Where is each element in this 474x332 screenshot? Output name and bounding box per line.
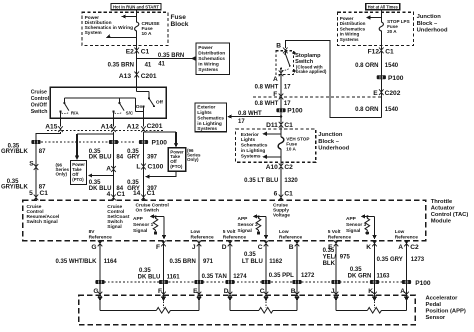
note Low Reference (B) bbox=[279, 229, 303, 240]
pin C C2 top bbox=[258, 241, 269, 296]
svg-text:R/A: R/A bbox=[71, 110, 80, 115]
pin K APP bbox=[368, 288, 377, 298]
pin F C2 top bbox=[156, 241, 166, 296]
svg-text:L: L bbox=[136, 163, 140, 170]
wire 0.8 WHT 17 bbox=[255, 75, 292, 130]
svg-text:A15: A15 bbox=[45, 123, 57, 130]
svg-text:(PTO): (PTO) bbox=[72, 177, 84, 182]
svg-text:14: 14 bbox=[133, 190, 141, 197]
svg-text:Signal: Signal bbox=[238, 228, 252, 234]
svg-text:B: B bbox=[276, 43, 281, 50]
svg-text:S: S bbox=[29, 161, 34, 168]
branch to PTO left bbox=[75, 134, 114, 160]
svg-text:F: F bbox=[158, 288, 162, 295]
resistor APP sensor 2 internal bbox=[238, 214, 269, 239]
svg-text:Control (TAC): Control (TAC) bbox=[431, 212, 469, 218]
switch contact S/C bbox=[112, 98, 133, 118]
svg-text:Position (APP): Position (APP) bbox=[426, 309, 466, 315]
connector C201 dashed line bbox=[47, 130, 163, 132]
pin A13 C201 bbox=[119, 72, 157, 80]
pin F APP bbox=[158, 288, 166, 298]
svg-text:C2: C2 bbox=[410, 244, 419, 251]
wire into switch bbox=[136, 75, 138, 88]
svg-text:1273: 1273 bbox=[411, 257, 425, 263]
svg-text:Stoplamp: Stoplamp bbox=[295, 53, 321, 59]
switch contact R/A bbox=[59, 98, 79, 118]
pin 4 C1 bbox=[107, 191, 126, 201]
svg-text:F: F bbox=[273, 91, 277, 98]
wire 0.8 ORN 1540 bbox=[355, 50, 404, 117]
svg-text:10 A: 10 A bbox=[142, 31, 152, 37]
svg-text:in Wiring: in Wiring bbox=[198, 61, 219, 67]
svg-text:DK GRN: DK GRN bbox=[348, 273, 372, 279]
svg-text:LT BLU: LT BLU bbox=[242, 259, 263, 265]
switch S2 stoplamp dashed box bbox=[276, 51, 294, 75]
note 8V Reference bbox=[89, 229, 113, 240]
svg-text:C1: C1 bbox=[385, 48, 394, 55]
connector C202 dashed line bbox=[253, 96, 381, 98]
label Cruise Control On/Off Switch bbox=[31, 90, 50, 116]
pin J APP bbox=[331, 288, 338, 298]
svg-text:Reference: Reference bbox=[279, 234, 303, 240]
svg-text:Block –: Block – bbox=[318, 139, 339, 145]
svg-text:K: K bbox=[366, 244, 371, 251]
svg-text:1540: 1540 bbox=[385, 63, 399, 69]
pin E C2 top bbox=[328, 241, 338, 296]
svg-text:1540: 1540 bbox=[385, 107, 399, 113]
pin F12 C1 bbox=[368, 48, 394, 56]
svg-text:4: 4 bbox=[107, 191, 111, 198]
svg-text:brake applied): brake applied) bbox=[296, 69, 327, 74]
svg-text:Reference: Reference bbox=[191, 234, 215, 240]
svg-text:41: 41 bbox=[158, 62, 165, 68]
arrow JB bottom bbox=[262, 155, 281, 159]
svg-text:Systems: Systems bbox=[340, 37, 359, 42]
note Low Reference (J) bbox=[191, 229, 215, 240]
wire switch feed internal bbox=[137, 87, 149, 98]
label Fuse Block bbox=[171, 14, 189, 28]
svg-text:397: 397 bbox=[147, 155, 158, 161]
svg-text:J: J bbox=[331, 288, 335, 295]
label 0.35 GRY 397 (2) bbox=[127, 180, 158, 192]
pin G C2 top bbox=[91, 241, 102, 296]
svg-text:0.35 LT BLU: 0.35 LT BLU bbox=[244, 178, 278, 184]
resistor APP sensor 3 (potentiometer) bbox=[334, 295, 409, 313]
svg-text:8V: 8V bbox=[89, 229, 96, 235]
svg-text:0.35: 0.35 bbox=[323, 248, 335, 254]
svg-text:GRY/BLK: GRY/BLK bbox=[1, 149, 28, 155]
resistor APP sensor 1 (potentiometer) bbox=[98, 295, 201, 313]
connector P100 on WHT bbox=[276, 108, 303, 115]
note Power Distribution Schematics in Wiring Systems (right) bbox=[340, 16, 366, 42]
svg-text:0.35: 0.35 bbox=[350, 267, 362, 273]
svg-text:Off: Off bbox=[156, 100, 163, 106]
pin A15 C201 bbox=[45, 118, 63, 132]
pin D C2 top bbox=[222, 241, 233, 296]
connector P100 dashed line (upper left) bbox=[41, 139, 167, 146]
svg-text:A13: A13 bbox=[119, 73, 131, 80]
svg-text:84: 84 bbox=[116, 155, 123, 161]
svg-text:Pedal: Pedal bbox=[426, 302, 442, 308]
svg-text:Junction: Junction bbox=[417, 14, 442, 20]
svg-text:10 A: 10 A bbox=[286, 146, 296, 151]
svg-text:Sensor 3: Sensor 3 bbox=[346, 222, 367, 228]
svg-text:A12: A12 bbox=[127, 123, 139, 130]
svg-text:Switch: Switch bbox=[31, 109, 48, 115]
svg-text:17: 17 bbox=[284, 85, 291, 91]
label Junction Block Underhood (middle) bbox=[318, 132, 349, 151]
resistor APP sensor 2 (potentiometer) bbox=[228, 295, 299, 313]
fuse STOP LPS 20 A bbox=[379, 19, 409, 34]
pin B APP bbox=[291, 288, 300, 298]
svg-text:F12: F12 bbox=[368, 48, 380, 55]
pin B bbox=[276, 43, 287, 54]
pin K C2 top bbox=[366, 241, 377, 296]
svg-text:Exterior: Exterior bbox=[241, 132, 259, 138]
svg-text:Hot in RUN and START: Hot in RUN and START bbox=[113, 5, 159, 10]
svg-text:87: 87 bbox=[39, 149, 46, 155]
svg-text:C2: C2 bbox=[284, 164, 293, 171]
svg-text:Block: Block bbox=[171, 21, 189, 28]
label 0.35 DK BLU 84 bbox=[89, 149, 124, 161]
svg-text:6: 6 bbox=[274, 191, 278, 198]
pin 14 C1 bbox=[133, 190, 155, 200]
svg-text:D: D bbox=[222, 244, 227, 251]
svg-text:5 Volt: 5 Volt bbox=[223, 229, 236, 235]
svg-text:BLK: BLK bbox=[323, 261, 336, 267]
svg-text:Schematics: Schematics bbox=[197, 115, 224, 121]
wire GRY/BLK jog bbox=[31, 132, 60, 200]
pin F C202 bbox=[273, 91, 283, 99]
pin D11 C1 bbox=[266, 122, 293, 129]
svg-text:1163: 1163 bbox=[377, 273, 391, 279]
svg-text:in Lighting: in Lighting bbox=[241, 148, 266, 154]
wire DK BLU down bbox=[109, 132, 118, 200]
note 5 Volt Reference (E) bbox=[328, 229, 352, 240]
svg-text:B: B bbox=[291, 288, 296, 295]
box PTO right (96 Series Only) bbox=[168, 148, 201, 171]
svg-text:17: 17 bbox=[238, 119, 245, 125]
svg-text:1162: 1162 bbox=[269, 259, 283, 265]
svg-text:Sensor 1: Sensor 1 bbox=[133, 222, 154, 228]
svg-text:Power: Power bbox=[198, 45, 213, 51]
arrow to system note bbox=[105, 34, 136, 40]
svg-text:Hot at All Times: Hot at All Times bbox=[368, 5, 399, 10]
svg-text:971: 971 bbox=[203, 259, 214, 265]
label 0.35 DK BLU 1161 bbox=[138, 268, 181, 280]
arrow wire A to PTO left bbox=[88, 173, 114, 177]
note Exterior Lights Schematics in Lighting Systems (inside JB) bbox=[241, 132, 268, 160]
box Power Distribution Schematics in Wiring Systems bbox=[196, 43, 230, 75]
svg-text:Systems: Systems bbox=[198, 67, 218, 73]
svg-text:0.35 BRN: 0.35 BRN bbox=[158, 53, 184, 59]
pin A14 C201 bbox=[101, 118, 116, 132]
svg-text:Underhood: Underhood bbox=[417, 27, 448, 33]
svg-text:Signal: Signal bbox=[346, 228, 360, 234]
pin 6 C1 bbox=[274, 191, 294, 201]
pin E2 C1 bbox=[126, 48, 150, 56]
svg-text:P100: P100 bbox=[152, 139, 168, 146]
svg-text:DK BLU: DK BLU bbox=[138, 275, 161, 281]
label 0.35 DK GRN 1163 bbox=[348, 267, 391, 279]
svg-text:On: On bbox=[136, 104, 143, 110]
svg-text:0.35 BRN: 0.35 BRN bbox=[108, 63, 134, 69]
branch to PTO right bbox=[144, 132, 179, 147]
svg-text:E2: E2 bbox=[126, 49, 134, 56]
svg-text:A: A bbox=[400, 288, 405, 295]
svg-text:F: F bbox=[156, 244, 160, 251]
box Exterior Lights Schematics in Lighting Systems bbox=[195, 103, 227, 132]
svg-text:(PTO): (PTO) bbox=[170, 164, 183, 169]
svg-text:A: A bbox=[273, 76, 278, 83]
label 0.35 TAN 1274 bbox=[202, 274, 248, 280]
arrow JB top bbox=[262, 132, 281, 136]
pin C APP bbox=[260, 288, 269, 298]
wire stop fuse feed bbox=[380, 10, 382, 50]
svg-text:1320: 1320 bbox=[284, 178, 298, 184]
svg-text:17: 17 bbox=[284, 101, 291, 107]
note Low Reference (A) bbox=[395, 229, 419, 240]
svg-text:Throttle: Throttle bbox=[431, 199, 453, 205]
pin A C2 top bbox=[398, 241, 419, 296]
svg-text:GRY/BLK: GRY/BLK bbox=[1, 185, 28, 191]
svg-text:0.35 WHT/BLK: 0.35 WHT/BLK bbox=[55, 259, 97, 265]
svg-text:1272: 1272 bbox=[301, 273, 315, 279]
svg-text:Only): Only) bbox=[56, 172, 68, 177]
pin 5 C1 bbox=[29, 190, 48, 201]
svg-text:Schematics: Schematics bbox=[241, 143, 268, 149]
node junction WHT branch bbox=[280, 115, 283, 118]
svg-text:C1: C1 bbox=[141, 49, 150, 56]
label 0.8 WHT 17 (2) bbox=[255, 101, 292, 107]
svg-text:1164: 1164 bbox=[104, 259, 118, 265]
svg-text:975: 975 bbox=[340, 255, 351, 261]
svg-text:Low: Low bbox=[279, 229, 289, 235]
label 0.35 LT BLU 1162 bbox=[242, 252, 283, 265]
svg-text:APP: APP bbox=[133, 216, 144, 222]
svg-text:0.35 PPL: 0.35 PPL bbox=[269, 273, 294, 279]
svg-text:Exterior: Exterior bbox=[197, 105, 215, 111]
svg-text:On Switch: On Switch bbox=[136, 208, 160, 214]
svg-text:A: A bbox=[106, 166, 111, 173]
note Cruise Control Set/Coast Switch Signal bbox=[107, 204, 130, 230]
pin G APP bbox=[93, 288, 102, 298]
svg-text:S/C: S/C bbox=[126, 110, 134, 115]
svg-text:C100: C100 bbox=[148, 164, 164, 171]
svg-text:Systems: Systems bbox=[241, 153, 261, 159]
svg-text:Systems: Systems bbox=[197, 126, 217, 132]
svg-text:C201: C201 bbox=[141, 73, 157, 80]
svg-text:C1: C1 bbox=[284, 191, 293, 198]
label 0.35 GRY 1273 bbox=[377, 257, 425, 263]
svg-text:Reference: Reference bbox=[223, 234, 247, 240]
fuse VEH STOP 10 A bbox=[278, 129, 309, 166]
svg-text:5: 5 bbox=[29, 190, 33, 197]
svg-text:0.35: 0.35 bbox=[244, 252, 256, 258]
svg-text:Block –: Block – bbox=[417, 21, 438, 27]
svg-text:0.8 ORN: 0.8 ORN bbox=[355, 63, 378, 69]
svg-text:Switch Signal: Switch Signal bbox=[27, 219, 58, 225]
svg-text:Sensor 2: Sensor 2 bbox=[238, 222, 259, 228]
svg-text:C1: C1 bbox=[117, 191, 126, 198]
pin A stoplamp bbox=[273, 70, 283, 83]
pin D APP bbox=[224, 288, 233, 298]
pin E C202 bbox=[373, 89, 400, 97]
label Accelerator Pedal Position (APP) Sensor bbox=[426, 296, 466, 322]
pin A APP bbox=[400, 288, 409, 298]
svg-text:Underhood: Underhood bbox=[318, 145, 349, 151]
box PTO left (96 Series Only) bbox=[56, 161, 87, 185]
svg-text:GRY: GRY bbox=[127, 155, 140, 161]
wire 0.35 BRN 41 branch to schematics bbox=[137, 53, 196, 68]
svg-text:APP: APP bbox=[346, 216, 357, 222]
svg-text:Schematics: Schematics bbox=[198, 56, 225, 62]
switch stoplamp contacts bbox=[280, 51, 291, 72]
switch S1 Cruise Control On/Off Switch box bbox=[50, 87, 166, 118]
svg-text:0.8 ORN: 0.8 ORN bbox=[355, 107, 378, 113]
label 0.35 BRN 971 bbox=[169, 259, 213, 265]
resistor APP sensor 1 internal bbox=[133, 214, 166, 239]
svg-text:J: J bbox=[192, 244, 196, 251]
svg-text:0.8 WHT: 0.8 WHT bbox=[255, 85, 279, 91]
pin J C2 top bbox=[192, 241, 201, 296]
svg-text:K: K bbox=[368, 288, 373, 295]
svg-text:Voltage: Voltage bbox=[273, 213, 290, 219]
pin E APP bbox=[193, 288, 201, 298]
svg-text:Reference: Reference bbox=[328, 234, 352, 240]
switch contact On/Off bbox=[136, 97, 163, 118]
svg-text:in Lighting: in Lighting bbox=[197, 121, 222, 127]
svg-text:Lights: Lights bbox=[197, 110, 212, 116]
junction block underhood dashed box (VEH STOP) bbox=[236, 129, 316, 162]
svg-text:A10: A10 bbox=[266, 164, 278, 171]
svg-text:YEL/: YEL/ bbox=[323, 255, 337, 261]
svg-text:C: C bbox=[260, 288, 265, 295]
arrow to note bbox=[366, 15, 381, 19]
svg-text:Sensor: Sensor bbox=[426, 315, 446, 321]
svg-text:D: D bbox=[224, 288, 229, 295]
svg-text:Signal: Signal bbox=[133, 228, 147, 234]
svg-text:Low: Low bbox=[395, 229, 405, 235]
svg-text:Only): Only) bbox=[187, 157, 199, 162]
svg-text:5 Volt: 5 Volt bbox=[328, 229, 341, 235]
svg-text:0.35 GRY: 0.35 GRY bbox=[377, 257, 403, 263]
pin A12 C201 bbox=[127, 118, 163, 132]
label 0.35 YEL/BLK 975 bbox=[323, 248, 351, 267]
wire 0.8 WHT 17 branch to exterior lights bbox=[227, 111, 281, 125]
svg-text:20 A: 20 A bbox=[387, 29, 397, 34]
svg-text:41: 41 bbox=[145, 63, 152, 69]
svg-text:Low: Low bbox=[191, 229, 201, 235]
svg-text:Reference: Reference bbox=[395, 234, 419, 240]
svg-text:On/Off: On/Off bbox=[31, 103, 47, 109]
label 0.35 GRY/BLK 87 bbox=[1, 143, 46, 155]
label Hot at All Times bbox=[366, 4, 400, 10]
connector C100 pins S A L bbox=[29, 161, 163, 173]
module U2 Accelerator Pedal Position sensor dashed box bbox=[79, 295, 416, 324]
wire PTO right return arrow bbox=[145, 171, 176, 179]
svg-text:G: G bbox=[91, 244, 96, 251]
svg-text:Lights: Lights bbox=[241, 137, 256, 143]
label 0.8 ORN 1540 (2) bbox=[355, 107, 399, 113]
svg-text:Signal: Signal bbox=[107, 224, 121, 230]
label 0.35 DK BLU 84 (2) bbox=[89, 180, 124, 192]
note Cruise Control On Switch bbox=[136, 203, 169, 214]
note 5 Volt Reference (D) bbox=[223, 229, 247, 240]
svg-text:P100: P100 bbox=[287, 108, 303, 115]
wire 0.35 LT BLU 1320 bbox=[244, 166, 298, 200]
fuse block (left) dashed box bbox=[82, 12, 168, 45]
resistor APP sensor 3 internal bbox=[346, 214, 377, 239]
label 0.35 WHT/BLK 1164 bbox=[55, 259, 117, 265]
svg-text:DK BLU: DK BLU bbox=[89, 155, 112, 161]
svg-text:D11: D11 bbox=[266, 122, 278, 129]
label Junction Block Underhood (top right) bbox=[417, 14, 448, 33]
svg-text:0.8 WHT: 0.8 WHT bbox=[238, 111, 262, 117]
svg-text:Accelerator: Accelerator bbox=[426, 296, 459, 302]
svg-text:Module: Module bbox=[431, 219, 452, 225]
svg-text:E: E bbox=[373, 90, 378, 97]
label Stoplamp Switch bbox=[292, 51, 327, 74]
note Cruise Supply Voltage bbox=[273, 203, 290, 219]
svg-text:Distribution: Distribution bbox=[198, 50, 225, 56]
svg-text:Fuse: Fuse bbox=[171, 14, 187, 21]
svg-text:A: A bbox=[398, 244, 403, 251]
svg-text:Reference: Reference bbox=[89, 234, 113, 240]
label 0.35 GRY 397 bbox=[127, 149, 158, 161]
svg-text:C1: C1 bbox=[284, 122, 293, 129]
svg-text:APP: APP bbox=[238, 216, 249, 222]
fuse CRUISE 10 A bbox=[135, 21, 161, 37]
svg-text:C202: C202 bbox=[385, 90, 401, 97]
svg-text:P100: P100 bbox=[388, 75, 404, 82]
arrow to power distribution note bbox=[121, 14, 137, 18]
svg-text:C: C bbox=[258, 244, 263, 251]
svg-text:C1: C1 bbox=[40, 190, 49, 197]
wire GRY down bbox=[139, 132, 148, 200]
svg-text:1274: 1274 bbox=[233, 274, 247, 280]
wire fuse feed bbox=[136, 10, 138, 50]
svg-text:Control: Control bbox=[31, 96, 50, 102]
connector P100 dashed line (bottom) bbox=[104, 280, 431, 287]
note Cruise Control Resume/Accel Switch Signal bbox=[27, 204, 60, 225]
label 0.35 GRY/BLK 87 (2) bbox=[1, 179, 46, 191]
svg-text:B: B bbox=[289, 244, 294, 251]
svg-text:0.35: 0.35 bbox=[139, 268, 151, 274]
label Hot in RUN and START bbox=[111, 4, 161, 10]
svg-text:G: G bbox=[93, 288, 98, 295]
svg-text:P100: P100 bbox=[415, 280, 431, 287]
connector P100 blobs bottom bbox=[95, 280, 411, 284]
svg-text:Junction: Junction bbox=[318, 132, 343, 138]
pin B C2 top bbox=[289, 241, 300, 296]
svg-text:E: E bbox=[193, 288, 198, 295]
junction block fuse box dashed bbox=[338, 12, 414, 45]
svg-text:C201: C201 bbox=[147, 123, 163, 130]
wire stoplamp B loop bbox=[285, 40, 381, 117]
svg-text:Actuator: Actuator bbox=[431, 206, 456, 212]
svg-text:0.8 WHT: 0.8 WHT bbox=[255, 101, 279, 107]
svg-text:0.35 BRN: 0.35 BRN bbox=[169, 259, 195, 265]
svg-text:0.35 TAN: 0.35 TAN bbox=[202, 274, 227, 280]
svg-text:1161: 1161 bbox=[167, 275, 181, 281]
wire switch bus bbox=[64, 98, 143, 112]
svg-text:C1: C1 bbox=[147, 190, 156, 197]
label 0.35 PPL 1272 bbox=[269, 273, 315, 279]
svg-text:System: System bbox=[85, 30, 102, 36]
module U1 Throttle Actuator Control dashed box bbox=[23, 200, 426, 241]
note Power Distribution Schematics in Wiring System bbox=[85, 15, 134, 36]
